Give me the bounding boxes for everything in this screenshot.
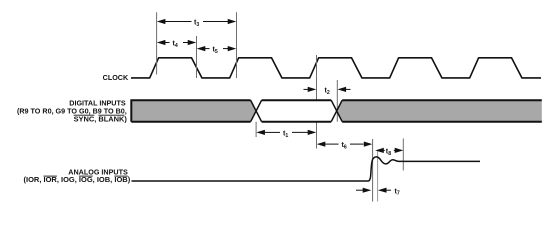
- node: analog transition reference line A: [372, 139, 374, 202]
- dimension t1: [256, 129, 316, 139]
- node: t4/t5 middle reference line: [196, 36, 198, 78]
- node: t3/t4 left reference line: [156, 12, 158, 74]
- svg-text:SYNC, BLANK): SYNC, BLANK): [74, 115, 128, 124]
- node: settled reference line C: [402, 139, 404, 171]
- digital inputs label: [17, 98, 127, 123]
- analog inputs label: [24, 167, 131, 184]
- overline IOG: [79, 175, 93, 177]
- overline IOR: [44, 175, 57, 177]
- dimension t6: [317, 140, 373, 150]
- bus: right gray segment: [337, 100, 542, 122]
- wire ANALOG waveform: [132, 157, 481, 181]
- svg-text:CLOCK: CLOCK: [103, 73, 129, 82]
- wire CLOCK waveform: [131, 58, 541, 78]
- node: analog rise-end reference line B: [377, 151, 379, 202]
- node: clock-edge reference line (t1/t2/t6 left): [316, 55, 318, 149]
- bus DIGITAL INPUTS band: left gray segment: [131, 100, 256, 122]
- overline SYNC: [74, 114, 95, 116]
- crossover X2: [331, 100, 342, 122]
- dimension t2: [304, 86, 351, 96]
- bus outline strokes: [131, 100, 542, 122]
- node: data-transition reference line (t2 right): [336, 80, 338, 122]
- dimension t4: [157, 39, 197, 49]
- node: X1 reference line below band: [255, 122, 257, 137]
- dimension t7: [356, 186, 400, 196]
- dimension t3: [157, 18, 237, 28]
- dimension t8: [375, 147, 403, 157]
- overline BLANK: [98, 114, 124, 116]
- bus: open (white) segment: [256, 100, 337, 122]
- overline IOB: [114, 175, 127, 177]
- node: t3/t5 right reference line: [236, 12, 238, 78]
- dimension t5: [197, 45, 237, 55]
- crossover X1: [251, 100, 262, 122]
